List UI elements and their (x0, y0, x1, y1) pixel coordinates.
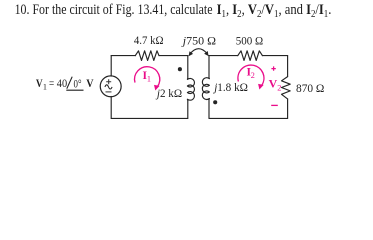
resistor 870 ohm vertical (282, 77, 291, 99)
resistor 500 ohm (238, 51, 263, 61)
svg-text:40: 40 (57, 76, 67, 90)
wire left vertical above source (110, 56, 112, 77)
wire top middle-right (209, 55, 238, 57)
minus V2 (271, 104, 278, 106)
svg-text:870 Ω: 870 Ω (296, 81, 325, 95)
wire right winding top stem (208, 56, 210, 78)
svg-text:10. For the circuit of Fig. 13: 10. For the circuit of Fig. 13.41, calcu… (15, 2, 213, 18)
angle slash (67, 77, 72, 89)
resistor 4.7 kohm (135, 51, 159, 61)
svg-text:0°: 0° (74, 76, 82, 90)
wire top middle-left (159, 55, 188, 57)
polarity dot right winding (213, 100, 217, 104)
wire left vertical below source (110, 97, 112, 119)
svg-text:j2 kΩ: j2 kΩ (155, 86, 182, 100)
svg-text:V: V (86, 76, 94, 90)
svg-text:j750 Ω: j750 Ω (181, 33, 216, 47)
svg-text:2: 2 (251, 71, 255, 80)
wire top-left horizontal (111, 55, 135, 57)
mutual arc arrowhead right (204, 51, 209, 56)
svg-text:1: 1 (43, 83, 47, 92)
svg-text:1: 1 (147, 74, 151, 83)
plus V2 (271, 66, 275, 70)
svg-text:4.7 kΩ: 4.7 kΩ (134, 33, 164, 47)
source V1 circle (100, 76, 121, 97)
source plus sign (106, 79, 111, 84)
mutual arc arrowhead left (189, 51, 194, 56)
wire left winding bottom stem (187, 100, 189, 118)
wire left winding top stem (187, 56, 189, 79)
source sine (105, 85, 112, 89)
wire top-right horizontal (262, 55, 287, 57)
source minus sign (106, 91, 112, 93)
wire bottom-left horizontal (111, 117, 188, 119)
svg-text:500 Ω: 500 Ω (236, 34, 264, 48)
inductor j1.8 kohm right winding loops (202, 78, 209, 100)
wire bottom-right horizontal (209, 117, 288, 119)
svg-text:=: = (49, 76, 54, 90)
polarity dot left winding (178, 67, 182, 71)
mesh arrowhead I1 (154, 85, 160, 91)
svg-text:j1.8 kΩ: j1.8 kΩ (212, 80, 248, 94)
mutual coupling arc j750 (190, 49, 207, 54)
wire right vertical below 870 (287, 99, 289, 119)
mesh arrowhead I2 (258, 84, 264, 90)
svg-text:I1, I2, V2/V1, and I2/I1.: I1, I2, V2/V1, and I2/I1. (217, 2, 332, 20)
svg-text:2: 2 (277, 83, 281, 92)
mesh current arc I1 (135, 67, 160, 87)
wire right winding bottom stem (208, 99, 210, 118)
angle underline (66, 89, 83, 91)
inductor j2 kohm left winding loops (187, 78, 194, 100)
wire right vertical above 870 (287, 56, 289, 77)
mesh current arc I2 (238, 65, 264, 85)
